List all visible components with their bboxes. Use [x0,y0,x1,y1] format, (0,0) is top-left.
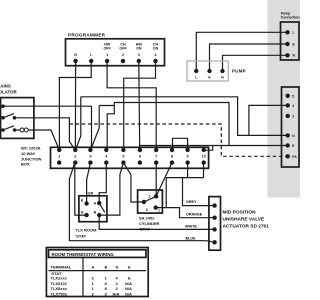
svg-text:4: 4 [292,104,294,108]
table header row [51,264,132,269]
junction box terminal dots top and bottom [57,148,206,165]
TLX switch arm [99,203,105,212]
wire JB7 to cylinder stat 2 [155,163,157,197]
cylinder stat box [138,190,163,213]
wire JB3 to TLX E [87,163,91,204]
svg-text:1: 1 [58,155,60,159]
actuator connector box [209,197,221,251]
wire prog N to JB2 [74,63,76,150]
svg-text:P/L: P/L [292,155,297,159]
wire pump E up to pump connections E [210,44,288,71]
svg-text:A: A [94,201,97,205]
svg-text:2: 2 [149,195,151,199]
svg-text:9: 9 [187,155,189,159]
svg-text:3: 3 [146,208,148,212]
svg-text:GREY: GREY [186,200,197,204]
svg-text:N: N [74,53,77,57]
svg-text:CYLINDER: CYLINDER [139,221,160,226]
svg-text:Connections: Connections [281,16,300,20]
svg-text:'STAT: 'STAT [75,233,86,238]
svg-text:ORANGE: ORANGE [186,212,203,216]
svg-text:MID POSITION: MID POSITION [223,210,257,216]
wire N bus to valve box N [81,97,288,136]
wire under-link bus JB9 JB10 [166,177,203,179]
svg-text:N: N [116,264,119,269]
svg-text:6: 6 [139,155,141,159]
wire under-link leg JB9 [187,163,189,178]
svg-text:ON: ON [153,47,159,51]
wire prog L jog to JB1 [59,63,91,150]
svg-text:BOX: BOX [21,162,30,167]
cylinder stat terminal labels [146,195,160,213]
svg-text:L: L [195,76,197,80]
svg-text:TLX ROOM: TLX ROOM [75,227,97,232]
wire link arch JB8-JB9 [173,138,188,150]
svg-text:10: 10 [202,155,206,159]
svg-text:10 WAY: 10 WAY [21,151,36,156]
table rows [51,271,133,296]
svg-text:A: A [92,264,95,269]
wire TLX B to white [99,215,214,229]
svg-text:3: 3 [292,114,294,118]
wire prog CH ON 4 jog to JB5 [124,63,156,150]
TLX terminal labels [81,199,97,215]
cylinder stat switch arm [144,196,156,202]
svg-text:WC 2202A: WC 2202A [21,146,41,151]
svg-text:SA 2452: SA 2452 [139,215,155,220]
pump terminal dots [194,69,198,73]
svg-text:OR: OR [88,192,94,196]
wire prog HW OFF 1 jog to JB7 [107,63,156,150]
svg-text:OFF: OFF [119,47,127,51]
svg-text:2: 2 [74,155,76,159]
programmer box [66,39,165,66]
pump box [187,61,228,81]
svg-text:WHITE: WHITE [185,224,197,228]
programmer terminal labels [74,43,158,58]
wire JB10 jog to E row [204,146,213,151]
wire dashed permanent live to valve P/L [69,124,287,156]
svg-text:OFF: OFF [104,47,112,51]
wire prog HW ON 3 to JB6 [138,63,141,150]
wire isolator row3 to JB1 [28,130,59,150]
wire E branch to JB4 [107,106,114,150]
svg-text:N: N [81,210,84,214]
mains isolator box [1,98,34,139]
wire E row to valve box E [139,145,287,147]
valve connections box [282,87,300,167]
svg-text:7: 7 [155,155,157,159]
svg-text:UNISHARE VALVE: UNISHARE VALVE [223,217,265,223]
wire E bus to corner [99,103,229,146]
svg-text:PROGRAMMER: PROGRAMMER [68,33,106,38]
wire E bus diag to JB3 [91,106,100,150]
wire JB5 to TLX B [99,163,123,216]
wire grey from under-link [183,178,215,206]
wire JB2 to TLX N [75,163,87,216]
programmer terminal dots [73,59,77,63]
svg-text:3: 3 [89,155,91,159]
wire isolator row1 E to JB3 [3,106,92,150]
svg-text:1: 1 [158,209,160,213]
wire JB8 diag to under-link [156,163,172,197]
wire JB5 to cylinder stat common [123,163,143,202]
svg-text:8: 8 [171,155,173,159]
wire pump N up to pump connections N [223,55,288,71]
svg-text:4: 4 [155,53,157,57]
grey panel background [268,0,301,198]
valve connections labels [292,94,297,159]
svg-text:ROOM THERMOSTAT WIRING: ROOM THERMOSTAT WIRING [52,252,115,257]
svg-text:ACTUATOR SD 2701: ACTUATOR SD 2701 [223,224,270,230]
svg-text:5: 5 [122,155,124,159]
wire JB2 to blue actuator N [69,163,214,243]
wire isolator row2 to JB2 [15,118,76,150]
wire JB4 to TLX A [99,163,106,204]
svg-text:B: B [105,264,108,269]
svg-text:L: L [293,31,295,35]
svg-text:B: B [94,211,97,215]
svg-text:MAINS: MAINS [0,84,11,89]
svg-text:JUNCTION: JUNCTION [21,156,42,161]
isolator switch row2 [1,116,5,120]
room thermostat wiring table [46,248,148,297]
TLX room stat box [79,196,107,222]
wire under-link leg JB10 [203,163,205,178]
isolator switch row3 with fuse circles [1,128,5,132]
isolator switch row1 dot [1,104,5,108]
svg-text:ON: ON [136,47,142,51]
junction box [51,147,209,168]
svg-text:N/A: N/A [113,291,120,296]
wire colour labels [185,200,203,240]
wire cylinder stat 1 to orange [156,208,215,218]
wire valve box 4 tap [249,105,288,135]
svg-text:TERMINAL: TERMINAL [51,264,72,269]
svg-text:ISOLATOR: ISOLATOR [0,90,18,95]
pump connections box [281,22,300,60]
svg-text:BLUE: BLUE [186,237,197,241]
svg-text:PUMP: PUMP [232,69,246,74]
wire N bus drop to JB2 [76,97,81,150]
junction terminal numbers [58,155,206,159]
svg-text:N/A: N/A [125,291,132,296]
wire under-link riser to cyl1 line [165,178,167,208]
svg-text:5: 5 [292,94,294,98]
svg-text:'STAT: 'STAT [139,226,150,231]
svg-text:1: 1 [106,53,108,57]
wire pump L up to pump connections L [196,32,287,71]
svg-text:2: 2 [122,53,124,57]
svg-text:E: E [128,264,131,269]
svg-text:3: 3 [138,53,140,57]
svg-text:TLX7501: TLX7501 [51,291,68,296]
